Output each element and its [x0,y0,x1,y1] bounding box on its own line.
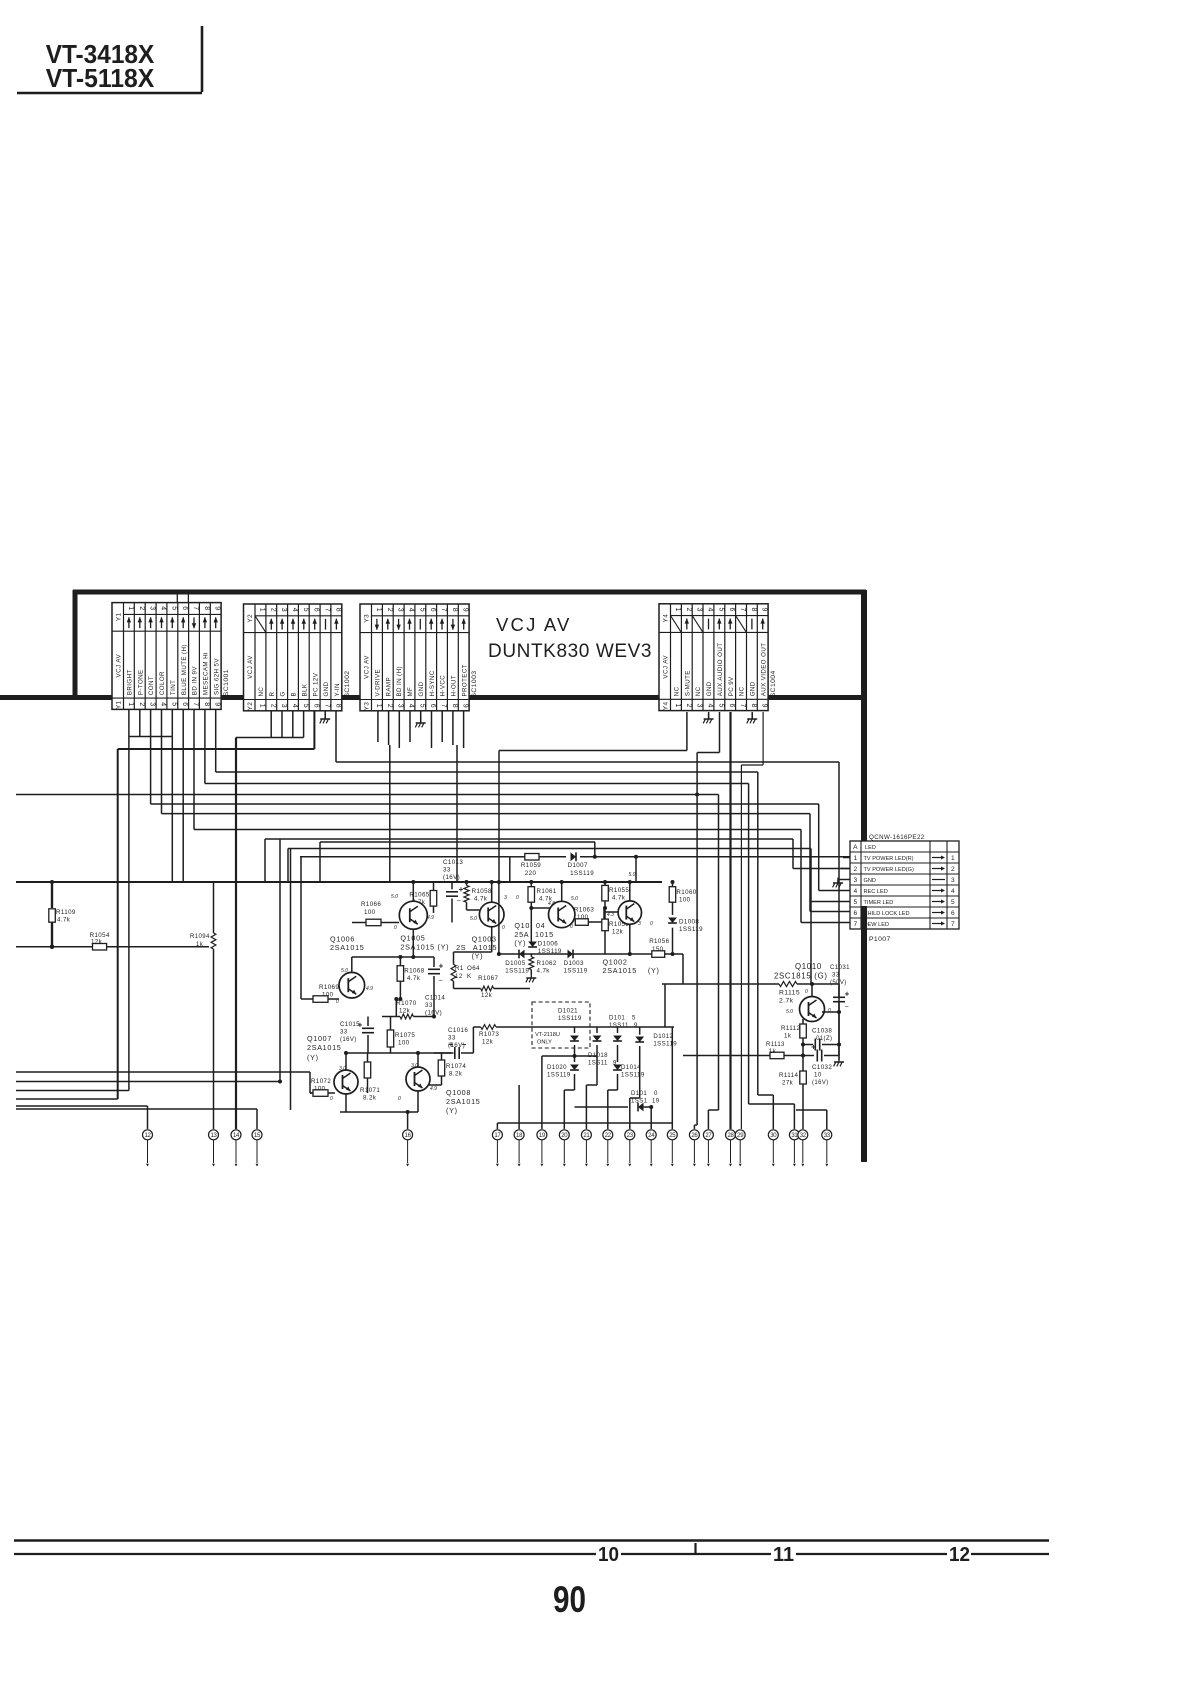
svg-text:0: 0 [330,1096,333,1102]
header bottom rule [17,92,202,95]
wire Q1002 collector to diode row [629,924,631,954]
resistor R1109 [51,882,53,908]
connector SC1002 (Y2) [244,604,342,711]
svg-text:8: 8 [203,606,210,611]
svg-text:1: 1 [674,608,681,613]
svg-text:AUX AUDIO OUT: AUX AUDIO OUT [717,643,724,697]
ground below C1032 [838,1057,840,1063]
svg-text:1SS119: 1SS119 [564,968,588,975]
module VT-2118U dashed box [532,1002,590,1048]
diode D1021 [574,1027,576,1033]
svg-text:8: 8 [451,704,458,709]
svg-text:H-VCC: H-VCC [440,675,447,697]
svg-text:R1065: R1065 [409,892,429,899]
svg-text:8: 8 [334,704,341,709]
svg-text:17: 17 [494,1133,501,1139]
svg-text:2SA1015: 2SA1015 [330,943,364,952]
test point 14 [231,1130,241,1140]
svg-text:VCJ AV: VCJ AV [247,655,254,679]
wire SC1003 pin2 drop [389,745,391,882]
svg-text:2: 2 [269,608,276,613]
wire R1061 to Q1004 base [531,907,550,909]
wire R1073 feed line [472,1027,474,1053]
test point 23 [625,1130,635,1140]
svg-text:5: 5 [170,606,177,611]
svg-text:4: 4 [408,704,415,709]
wire Q1003 emitter to rail [491,882,493,902]
test point 13 [209,1130,219,1140]
svg-text:1015: 1015 [535,930,554,939]
diode D1014 [613,1065,622,1071]
resistor R1115 [779,981,797,986]
svg-text:D101: D101 [631,1090,647,1097]
svg-text:11: 11 [773,1543,794,1566]
svg-text:D1006: D1006 [538,941,558,948]
svg-text:−: − [439,978,444,985]
svg-text:5.0: 5.0 [786,1009,793,1015]
svg-text:10: 10 [598,1543,619,1566]
wire SC1001 pin3 to LED row4 bus [150,709,152,804]
svg-text:5: 5 [418,704,425,709]
svg-text:(16V): (16V) [340,1037,357,1043]
ground below R1062 [530,973,532,979]
svg-text:R1061: R1061 [537,888,557,895]
svg-text:LED: LED [865,845,876,851]
svg-text:3.0: 3.0 [339,1066,346,1072]
footer tick [694,1543,696,1554]
svg-text:H-OUT: H-OUT [451,675,458,697]
svg-text:+: + [845,990,850,999]
diode D1006 [528,942,537,948]
wire SC1003 pin8 drop [456,745,458,882]
svg-text:A: A [853,844,858,851]
svg-text:33: 33 [340,1029,348,1036]
diode D1003 [568,950,574,959]
wire Q1010 emitter to C1031 [822,1011,839,1013]
svg-text:3: 3 [504,895,507,901]
wire y984 to diode feed line [664,984,666,1027]
svg-text:C1015: C1015 [340,1021,360,1028]
svg-text:100: 100 [314,1086,326,1093]
svg-text:4: 4 [160,606,167,611]
svg-text:(16V): (16V) [812,1080,829,1086]
svg-text:4.7k: 4.7k [407,975,421,982]
svg-text:27k: 27k [782,1080,794,1087]
board outline left edge [73,590,78,699]
svg-text:5: 5 [951,899,955,906]
svg-text:6: 6 [728,608,735,613]
svg-text:D1005: D1005 [505,960,525,967]
svg-text:4: 4 [853,888,857,895]
svg-text:6: 6 [313,704,320,709]
left exit wire A [16,1071,310,1073]
wire SC1001 pin5 to rail [171,709,173,882]
svg-text:G: G [280,691,287,696]
svg-text:21: 21 [583,1133,590,1139]
transistor Q1010 [811,984,813,997]
diode D1012 [639,1027,641,1035]
svg-text:R1094: R1094 [190,934,210,940]
wire R1055 to Q1002 base [605,911,618,913]
svg-text:1SS119: 1SS119 [653,1041,677,1048]
svg-text:0: 0 [398,1096,401,1102]
svg-text:CHILD LOCK LED: CHILD LOCK LED [864,911,910,917]
test point 26 [689,1130,699,1140]
svg-text:33: 33 [448,1035,456,1042]
wire Q1004 emitter to rail [561,882,563,901]
svg-text:6: 6 [853,910,857,917]
svg-text:Y3: Y3 [363,702,370,711]
svg-text:7: 7 [739,704,746,709]
svg-text:1SS119: 1SS119 [505,968,529,975]
svg-text:R1075: R1075 [395,1032,415,1039]
svg-text:1: 1 [853,855,857,862]
resistor R1067 [454,988,481,990]
svg-text:4.7k: 4.7k [537,968,551,975]
svg-text:10: 10 [814,1072,822,1079]
svg-text:2: 2 [951,866,955,873]
svg-text:4.7k: 4.7k [612,895,626,902]
footer rule upper [14,1539,1049,1542]
svg-text:12k: 12k [399,1008,411,1015]
svg-text:1SS119: 1SS119 [679,926,703,933]
board outline top edge [73,590,866,595]
svg-text:0: 0 [394,925,397,931]
svg-text:D1014: D1014 [621,1064,641,1071]
svg-text:32: 32 [800,1133,807,1139]
resistor R1073 [481,1025,496,1030]
svg-text:7: 7 [951,921,955,928]
footer rule lower with grid numbers [14,1553,596,1555]
svg-text:R1055: R1055 [609,887,629,894]
svg-text:QCNW-1616PE22: QCNW-1616PE22 [869,834,925,841]
wire SC1004 pin6 PC9V to test point 28 [729,712,731,1129]
connector SC1004 (Y4) [659,604,768,711]
svg-text:B: B [291,692,298,697]
svg-text:1: 1 [258,704,265,709]
svg-text:VT-5118X: VT-5118X [46,65,155,93]
test point 30 [768,1130,778,1140]
svg-text:VCJ AV: VCJ AV [115,653,122,677]
svg-text:1: 1 [375,704,382,709]
resistor R1066 [352,922,366,924]
svg-text:1: 1 [258,608,265,613]
svg-text:Y2: Y2 [247,702,254,711]
wire R1054 to test point 13 column [107,946,214,948]
svg-text:6: 6 [429,704,436,709]
svg-text:.01(Z): .01(Z) [814,1036,832,1042]
svg-text:R1115: R1115 [779,990,800,997]
wire SC1002 pin7 ground [324,710,326,719]
resistor R1069 [301,998,313,1000]
resistor R1114 [802,1056,804,1072]
wire D-group to test points [564,1089,574,1091]
svg-text:2: 2 [138,702,145,707]
svg-text:NC: NC [258,687,265,697]
svg-text:C1016: C1016 [448,1027,468,1034]
svg-text:0: 0 [654,1090,658,1097]
svg-text:P-TONE: P-TONE [137,669,144,695]
connector SC1001 (Y1) [112,603,221,710]
junction and riser on row1 branch [593,855,597,859]
svg-text:Q1010: Q1010 [795,962,822,971]
svg-text:4.8: 4.8 [548,901,555,907]
svg-text:BD IN (H): BD IN (H) [396,666,403,696]
svg-text:6: 6 [728,704,735,709]
svg-text:C1013: C1013 [443,859,463,866]
svg-text:VT-2118U: VT-2118U [535,1032,560,1038]
wire SC1003 pin5 ground [420,710,422,723]
svg-text:8: 8 [750,608,757,613]
wire SC1004 pin8 ground [751,712,753,719]
left exit wire F to test point 15 [16,1108,257,1110]
svg-text:0: 0 [805,989,808,995]
diode D1005 [519,950,525,959]
svg-text:R1073: R1073 [479,1031,499,1038]
resistor R1059 [525,854,539,861]
resistor R1061 [530,882,532,887]
svg-text:23: 23 [627,1133,634,1139]
svg-text:Y4: Y4 [662,614,669,623]
svg-text:8: 8 [451,608,458,613]
test point 33 [822,1130,832,1140]
svg-text:2.7k: 2.7k [779,998,794,1005]
svg-text:8.2k: 8.2k [363,1095,377,1102]
svg-text:2SA1015: 2SA1015 [603,966,637,975]
ground SC1004 pin8 [751,714,753,720]
svg-text:R1058: R1058 [472,888,492,895]
left exit wire E to test point 12 [16,1105,148,1107]
svg-text:33: 33 [832,972,840,979]
diode D1007 [571,852,577,861]
wire SC1004 pin5 to test point 26 [719,712,721,753]
svg-text:MESECAM Hi: MESECAM Hi [203,652,210,695]
svg-text:5: 5 [418,608,425,613]
svg-text:15: 15 [254,1133,261,1139]
svg-text:5: 5 [170,702,177,707]
svg-text:5.0: 5.0 [629,872,636,878]
wire test point 25 riser [671,1027,673,1123]
connector SC1003 (Y3) [360,604,469,711]
svg-text:4: 4 [707,608,714,613]
wire to test point 13 [213,882,215,1129]
svg-text:90: 90 [553,1579,586,1620]
svg-text:C1038: C1038 [812,1028,832,1035]
svg-text:0: 0 [336,999,339,1005]
resistor R1053 [602,919,609,931]
svg-text:3: 3 [149,606,156,611]
wire SC1001 pin1 column down [128,737,130,1091]
svg-text:24: 24 [648,1133,655,1139]
svg-text:2: 2 [138,606,145,611]
capacitor C1013 [451,882,453,889]
svg-text:3: 3 [280,608,287,613]
wire test point 18 [518,1085,520,1129]
wire test point 24 [650,1107,652,1129]
svg-text:8: 8 [334,608,341,613]
capacitor C1032 [803,1055,814,1057]
svg-text:1k: 1k [784,1033,792,1040]
svg-text:D1008: D1008 [679,919,699,926]
test point 22 [603,1130,613,1140]
svg-text:R1114: R1114 [779,1072,798,1079]
svg-text:(Y): (Y) [648,966,660,975]
svg-text:REC LED: REC LED [864,889,888,895]
svg-text:8.2k: 8.2k [449,1071,463,1078]
wire SC1004 pin2 bus [686,712,688,751]
svg-text:25: 25 [669,1133,676,1139]
svg-text:R: R [269,692,276,697]
left rail wire [16,881,662,883]
svg-text:R1072: R1072 [311,1078,331,1085]
diode D1020 [570,1065,579,1071]
svg-text:(Y): (Y) [472,952,484,961]
svg-text:R1059: R1059 [521,862,541,869]
svg-text:12k: 12k [482,1039,494,1046]
svg-text:7: 7 [440,608,447,613]
svg-text:PC 12V: PC 12V [312,672,319,696]
wire Q1006 collector [351,957,353,972]
wire R1058 to Q1003 base [467,909,480,911]
wire Q1010 feed [683,983,779,985]
test point 24 [646,1130,656,1140]
svg-text:D1012: D1012 [653,1033,673,1040]
capacitor C1031 [833,996,845,998]
upper bus wire [320,841,595,843]
svg-text:19: 19 [539,1133,546,1139]
wire R1069 junction to R1070 [395,999,397,1017]
wire SC1001 pin4 to LED row6 bus [161,709,163,813]
wire Q1008 collector [417,1053,419,1067]
svg-text:13: 13 [210,1133,217,1139]
LED table row3 ground [838,879,850,881]
wire stubs above SC1001 [176,592,178,603]
svg-text:12: 12 [455,973,463,980]
wire C1031 column ground [838,984,840,997]
svg-text:6: 6 [313,608,320,613]
svg-text:PROTECT: PROTECT [461,664,468,696]
wire PC12V from SC1002 pin6 [313,710,315,749]
svg-text:28: 28 [727,1133,734,1139]
svg-text:BLK: BLK [301,683,308,696]
vertical from rail to diode row [498,882,500,954]
svg-text:100: 100 [364,909,376,916]
svg-text:R1056: R1056 [649,938,669,945]
wire Q1007 Q1008 emitters to test point 16 [345,1094,347,1112]
svg-text:7: 7 [324,704,331,709]
svg-text:R1062: R1062 [537,960,557,967]
svg-text:0: 0 [570,924,573,930]
svg-text:0: 0 [828,1008,831,1014]
svg-text:150: 150 [652,946,664,953]
svg-text:3: 3 [696,704,703,709]
svg-text:R1063: R1063 [574,907,594,914]
svg-text:3: 3 [280,704,287,709]
resistor R1113 [683,1055,770,1057]
svg-text:5: 5 [632,1015,636,1022]
svg-text:9: 9 [462,704,469,709]
wire SC1002 pin bracket [236,737,304,739]
svg-text:VCJ AV: VCJ AV [363,655,370,679]
svg-text:2SC1815 (G): 2SC1815 (G) [774,972,828,981]
svg-text:5: 5 [302,704,309,709]
resistor R1058 [466,882,468,885]
svg-text:Y1: Y1 [115,613,122,622]
svg-text:100: 100 [398,1040,410,1047]
svg-text:MF: MF [407,687,414,697]
svg-text:NC: NC [674,686,681,696]
svg-text:H-SYNC: H-SYNC [429,670,436,696]
svg-text:NC: NC [695,686,702,696]
svg-text:2: 2 [386,608,393,613]
wire Q1005 collector [412,929,414,957]
wire to test point 14 [235,738,237,1130]
resistor R1062 [529,957,534,970]
resistor R1060 [672,882,674,887]
svg-text:GND: GND [864,878,876,884]
svg-text:4.9: 4.9 [366,986,373,992]
svg-text:1SS119: 1SS119 [570,870,594,877]
svg-text:SC1002: SC1002 [344,671,351,698]
svg-text:2: 2 [386,704,393,709]
test point 15 [252,1130,262,1140]
board outline right edge (upper) [861,590,867,852]
svg-text:TINT: TINT [170,680,177,695]
svg-text:D1020: D1020 [547,1064,567,1071]
svg-text:Y2: Y2 [247,614,254,623]
svg-text:9: 9 [462,608,469,613]
wire SC1001 pin6 to rail [182,709,184,882]
svg-text:100: 100 [577,914,589,921]
wire SC1004 pin9 to test point 29 [762,712,764,765]
wire Q1003 collector [491,927,493,952]
wire SC1004 pin4 ground [708,712,710,719]
svg-text:O64: O64 [467,965,480,972]
svg-text:2: 2 [853,866,857,873]
svg-text:R1109: R1109 [56,909,76,916]
svg-text:5.0: 5.0 [391,894,398,900]
resistor R1055 [604,882,606,885]
svg-text:C1032: C1032 [812,1064,832,1071]
test point 18 [514,1130,524,1140]
svg-text:100: 100 [322,992,334,999]
svg-text:R1071: R1071 [360,1087,380,1094]
resistor R1054 [93,944,107,951]
svg-text:Q1008: Q1008 [446,1088,471,1097]
svg-text:27: 27 [705,1133,712,1139]
svg-text:(Y): (Y) [446,1106,458,1115]
svg-text:26: 26 [691,1133,698,1139]
diode D1018 [596,1027,598,1033]
wire LED row1 feed [636,856,850,858]
svg-text:0: 0 [502,925,505,931]
svg-text:9: 9 [214,606,221,611]
resistor R1072 [313,1090,328,1097]
svg-text:19: 19 [652,1098,660,1105]
svg-text:3.0: 3.0 [411,1063,418,1069]
resistor R1112 [802,1019,804,1024]
transistor Q1008 [406,1067,430,1091]
svg-text:12k: 12k [91,939,103,946]
svg-text:RAMP: RAMP [385,677,392,696]
capacitor C1015 [367,1017,369,1027]
svg-text:COLOR: COLOR [159,671,166,695]
svg-text:5: 5 [717,704,724,709]
left exit wire B [16,1081,280,1083]
svg-text:CONT: CONT [148,676,155,695]
LED table left stubs [843,857,850,859]
svg-text:0: 0 [650,921,653,927]
